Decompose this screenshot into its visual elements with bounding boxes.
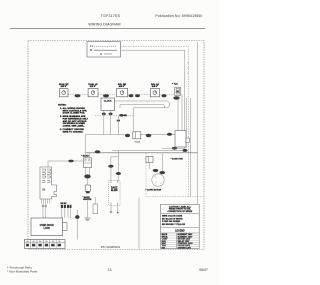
svg-text:* DLB: * DLB [134,142,140,144]
svg-text:Publication No: 5995419560: Publication No: 5995419560 [155,14,202,18]
svg-text:R RED GN GREEN: R RED GN GREEN [162,221,181,223]
svg-text:SW 8": SW 8" [61,86,67,88]
svg-text:BR BROWN Y YELLOW: BR BROWN Y YELLOW [162,224,185,226]
svg-text:IGNITER 120V: IGNITER 120V [178,247,192,249]
svg-text:13: 13 [108,268,112,272]
svg-text:SW 6": SW 6" [119,86,125,88]
svg-text:WIRE COLOR CODE: WIRE COLOR CODE [162,216,183,218]
svg-text:N: N [90,48,92,52]
svg-text:ELEM: ELEM [111,190,117,192]
svg-text:OVEN DOOR: OVEN DOOR [40,225,54,227]
svg-text:* TLC: * TLC [172,84,178,86]
svg-text:* CONV MOTOR: * CONV MOTOR [146,190,162,192]
svg-text:P/N 316905201: P/N 316905201 [101,245,121,249]
svg-text:TGF317ES: TGF317ES [101,14,121,18]
svg-text:SW 6": SW 6" [152,86,158,88]
svg-text:06/07: 06/07 [199,268,208,272]
svg-text:WIRING DIAGRAM: WIRING DIAGRAM [88,23,120,27]
svg-text:* Non-Illustrated Parts: * Non-Illustrated Parts [7,269,38,273]
svg-text:CASES. SEE LABEL.: CASES. SEE LABEL. [63,125,85,128]
svg-text:NOTES:: NOTES: [58,104,67,106]
svg-text:HSI: HSI [162,247,166,249]
svg-text:DOOR CLOSED POS.: DOOR CLOSED POS. [63,113,86,115]
svg-text:LOCK: LOCK [43,228,50,230]
svg-text:CONNECTION OF WIRES: CONNECTION OF WIRES [167,211,192,213]
svg-text:BR BK: BR BK [61,203,68,205]
svg-text:LEGEND: LEGEND [175,230,185,232]
svg-text:BK BLACK W WHITE: BK BLACK W WHITE [162,217,183,220]
svg-text:SW 6": SW 6" [90,86,96,88]
svg-text:G: G [100,52,102,56]
svg-text:CLOCK: CLOCK [104,100,112,102]
svg-text:5B: 5B [42,188,45,192]
svg-text:* CONV FAN: * CONV FAN [171,158,184,161]
svg-text:WIRE TO CHASSIS.: WIRE TO CHASSIS. [63,130,84,133]
